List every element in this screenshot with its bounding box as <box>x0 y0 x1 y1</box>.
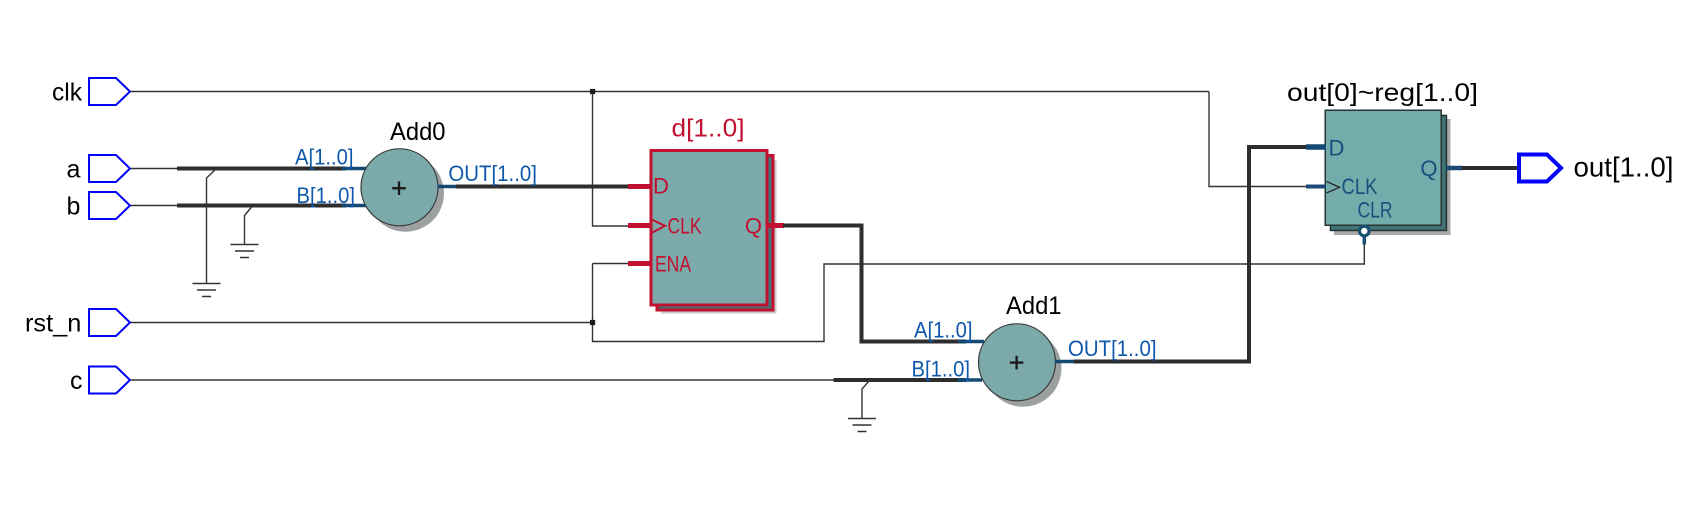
wire a to Add0 A bus <box>131 169 346 284</box>
svg-text:d[1..0]: d[1..0] <box>672 115 745 143</box>
wire Add1 OUT to out reg D <box>1055 147 1307 362</box>
svg-text:D: D <box>653 174 669 199</box>
wire d Q to Add1 A bus <box>783 226 966 342</box>
svg-text:out[1..0]: out[1..0] <box>1574 152 1674 183</box>
net label A[1..0] Add0 <box>295 145 354 170</box>
svg-text:Add1: Add1 <box>1006 292 1062 320</box>
bus stub Add0 B <box>342 204 367 208</box>
junction rst_n net <box>590 320 595 325</box>
wire out reg Q to output pin <box>1462 166 1517 170</box>
wire b to Add0 B bus <box>131 206 346 245</box>
svg-text:D: D <box>1329 136 1345 161</box>
register out[0]~reg[1..0] <box>1287 79 1478 245</box>
input pin b <box>67 192 131 221</box>
wire clk net <box>131 92 1306 227</box>
net label B[1..0] Add0 <box>297 183 356 208</box>
net label OUT[1..0] Add1 <box>1068 336 1157 361</box>
bus stub Add1 A <box>958 340 984 344</box>
svg-text:CLK: CLK <box>1342 174 1378 199</box>
svg-text:A[1..0]: A[1..0] <box>295 145 354 170</box>
junction clk net <box>590 89 595 94</box>
input pin a <box>67 155 131 184</box>
wire Add0 OUT to d[1..0] D <box>438 185 630 189</box>
ground G2 <box>231 245 259 258</box>
input pin rst_n <box>25 309 130 338</box>
svg-text:ENA: ENA <box>655 252 691 277</box>
svg-text:clk: clk <box>52 79 82 107</box>
wire c to Add1 B bus <box>131 380 966 419</box>
svg-text:c: c <box>70 367 83 395</box>
svg-text:CLK: CLK <box>668 214 702 239</box>
input pin c <box>70 367 130 396</box>
adder Add0 <box>361 118 446 232</box>
input pin clk <box>52 78 130 107</box>
adder Add1 <box>979 292 1062 407</box>
svg-text:B[1..0]: B[1..0] <box>912 357 971 382</box>
svg-text:Add0: Add0 <box>390 118 446 146</box>
svg-text:A[1..0]: A[1..0] <box>914 318 973 343</box>
svg-text:Q: Q <box>745 214 762 239</box>
svg-text:Q: Q <box>1420 156 1437 181</box>
register d[1..0] <box>628 115 784 314</box>
svg-text:OUT[1..0]: OUT[1..0] <box>1068 336 1157 361</box>
net label OUT[1..0] Add0 <box>448 161 537 186</box>
ground G1 <box>193 284 221 297</box>
bus stub Add1 B <box>958 378 982 382</box>
ground G3 <box>848 419 876 432</box>
svg-text:OUT[1..0]: OUT[1..0] <box>448 161 537 186</box>
net label A[1..0] Add1 <box>914 318 973 343</box>
svg-text:B[1..0]: B[1..0] <box>297 183 356 208</box>
svg-text:a: a <box>67 156 81 184</box>
svg-text:out[0]~reg[1..0]: out[0]~reg[1..0] <box>1287 79 1478 107</box>
svg-text:rst_n: rst_n <box>25 310 81 338</box>
bus stub Add0 A <box>342 167 367 171</box>
net label B[1..0] Add1 <box>912 357 971 382</box>
wire rst_n net <box>131 242 1364 342</box>
output pin out[1..0] <box>1519 152 1674 183</box>
svg-text:CLR: CLR <box>1358 197 1393 222</box>
svg-text:b: b <box>67 193 81 221</box>
